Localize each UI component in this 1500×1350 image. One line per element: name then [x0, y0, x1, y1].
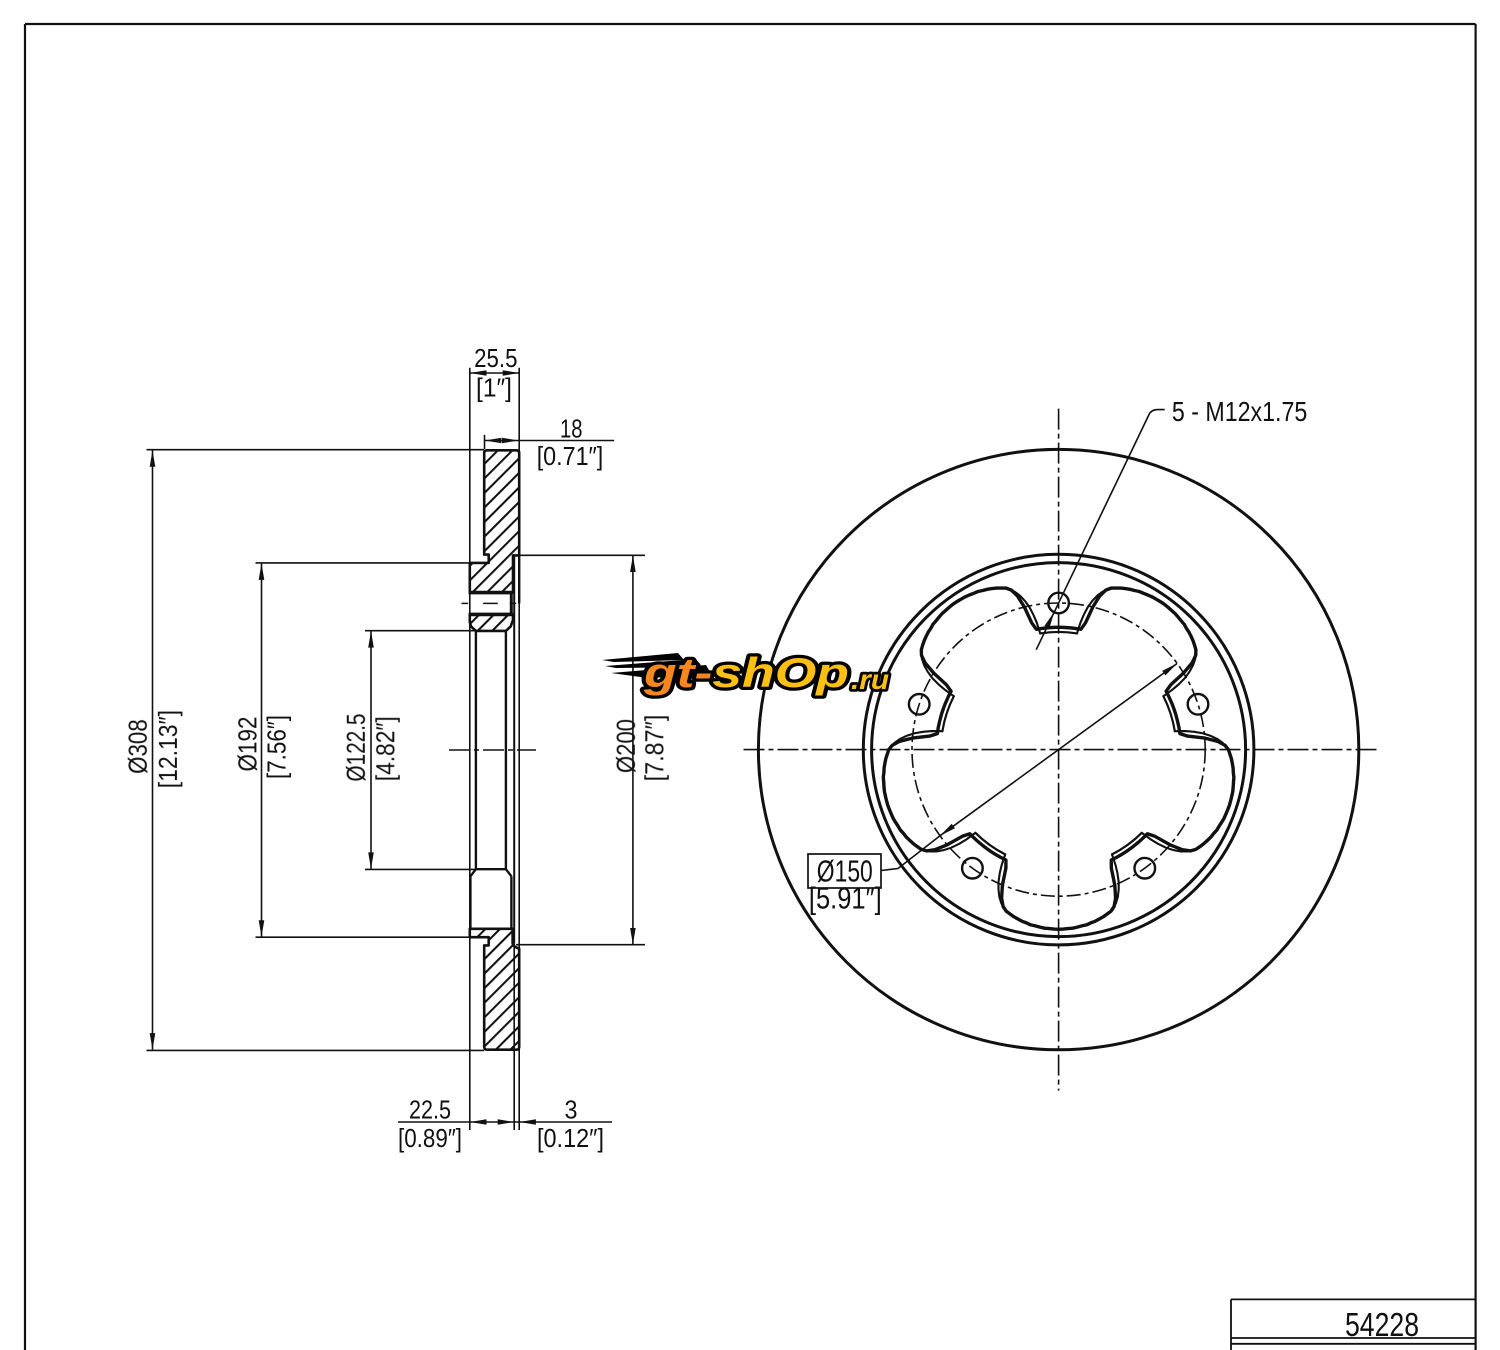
dim Ø308 [12.13"]: [123, 450, 484, 1051]
hat bore walls: [475, 631, 477, 869]
disc outer circle: [758, 449, 1358, 1049]
svg-text:[0.12″]: [0.12″]: [537, 1123, 604, 1153]
bolt circle (dash-dot): [912, 603, 1205, 896]
hat flange edge circle (O192): [872, 563, 1246, 937]
dims 22.5 [0.89"] and 3 [0.12"] bottom: [398, 1095, 612, 1154]
braking band inner edge circle (O200): [863, 554, 1254, 945]
right view centerline horizontal: [744, 749, 1377, 751]
svg-text:[7.87″]: [7.87″]: [639, 715, 669, 782]
svg-text:Ø308: Ø308: [123, 719, 153, 774]
extension/edge line: band inner face plane: [518, 368, 520, 1130]
section hatch: flange below bolt hole (with bore chamfers): [470, 614, 513, 631]
band inner face thick segment: [518, 555, 520, 603]
extension line for mounting plane (dim 22.5/3): [513, 944, 515, 1130]
svg-text:Ø122.5: Ø122.5: [341, 714, 371, 782]
lobed opening chamfer: inner bridge arcs + wall chamfer lines: [1040, 632, 1077, 633]
left view horizontal centerline: [449, 749, 536, 751]
svg-text:Ø200: Ø200: [611, 719, 641, 773]
section hatch: lower bridge ring + lower braking band: [470, 929, 519, 1050]
svg-text:[7.56″]: [7.56″]: [262, 715, 292, 779]
O150 label box: [808, 854, 881, 888]
svg-text:22.5: 22.5: [409, 1095, 451, 1125]
leader to top bolt hole: [1036, 410, 1165, 650]
svg-text:gt-shOp: gt-shOp: [643, 649, 849, 696]
svg-text:18: 18: [560, 414, 583, 444]
title block: [1231, 1299, 1476, 1350]
svg-text:Ø192: Ø192: [232, 717, 262, 772]
dim Ø122.5 [4.82"]: [341, 631, 476, 870]
5 bolt holes M12: [1048, 593, 1069, 614]
bolt hole centerline mark: [462, 602, 469, 604]
bore lower edge + chamfers (view through lobe): [476, 868, 506, 870]
dim Ø192 [7.56"]: [232, 563, 469, 937]
dim Ø200 [7.87"]: [515, 555, 670, 944]
svg-text:5 - M12x1.75: 5 - M12x1.75: [1172, 396, 1307, 427]
section hatch: upper braking band + hat neck + flange above bolt hole: [470, 450, 519, 592]
lobed center opening contour (5 lobes + bridges): [883, 588, 1234, 929]
mounting-face silhouette line (3mm step): [513, 555, 515, 943]
dim 25.5 [1"] top: [470, 343, 519, 402]
gt-shop.ru watermark logo: [602, 649, 889, 696]
svg-text:54228: 54228: [1345, 1306, 1419, 1343]
dim 18 [0.71"]: [485, 414, 615, 471]
svg-text:[5.91″]: [5.91″]: [809, 881, 882, 916]
svg-text:25.5: 25.5: [474, 343, 517, 373]
svg-text:[0.71″]: [0.71″]: [537, 441, 604, 471]
extension/edge line: hat outer face plane: [469, 368, 471, 1130]
svg-text:[12.13″]: [12.13″]: [153, 710, 183, 788]
leader from O150 box to diagonal: [881, 836, 940, 871]
bolt hole in hat flange (section): [469, 594, 512, 612]
svg-text:.ru: .ru: [851, 664, 889, 695]
svg-text:[1″]: [1″]: [476, 372, 512, 402]
svg-text:[4.82″]: [4.82″]: [371, 716, 401, 781]
dim O150 diagonal with arrows on bolt circle: [940, 663, 1177, 835]
svg-text:3: 3: [565, 1095, 578, 1125]
right view centerline vertical: [1058, 409, 1060, 1091]
svg-text:[0.89″]: [0.89″]: [398, 1123, 462, 1153]
